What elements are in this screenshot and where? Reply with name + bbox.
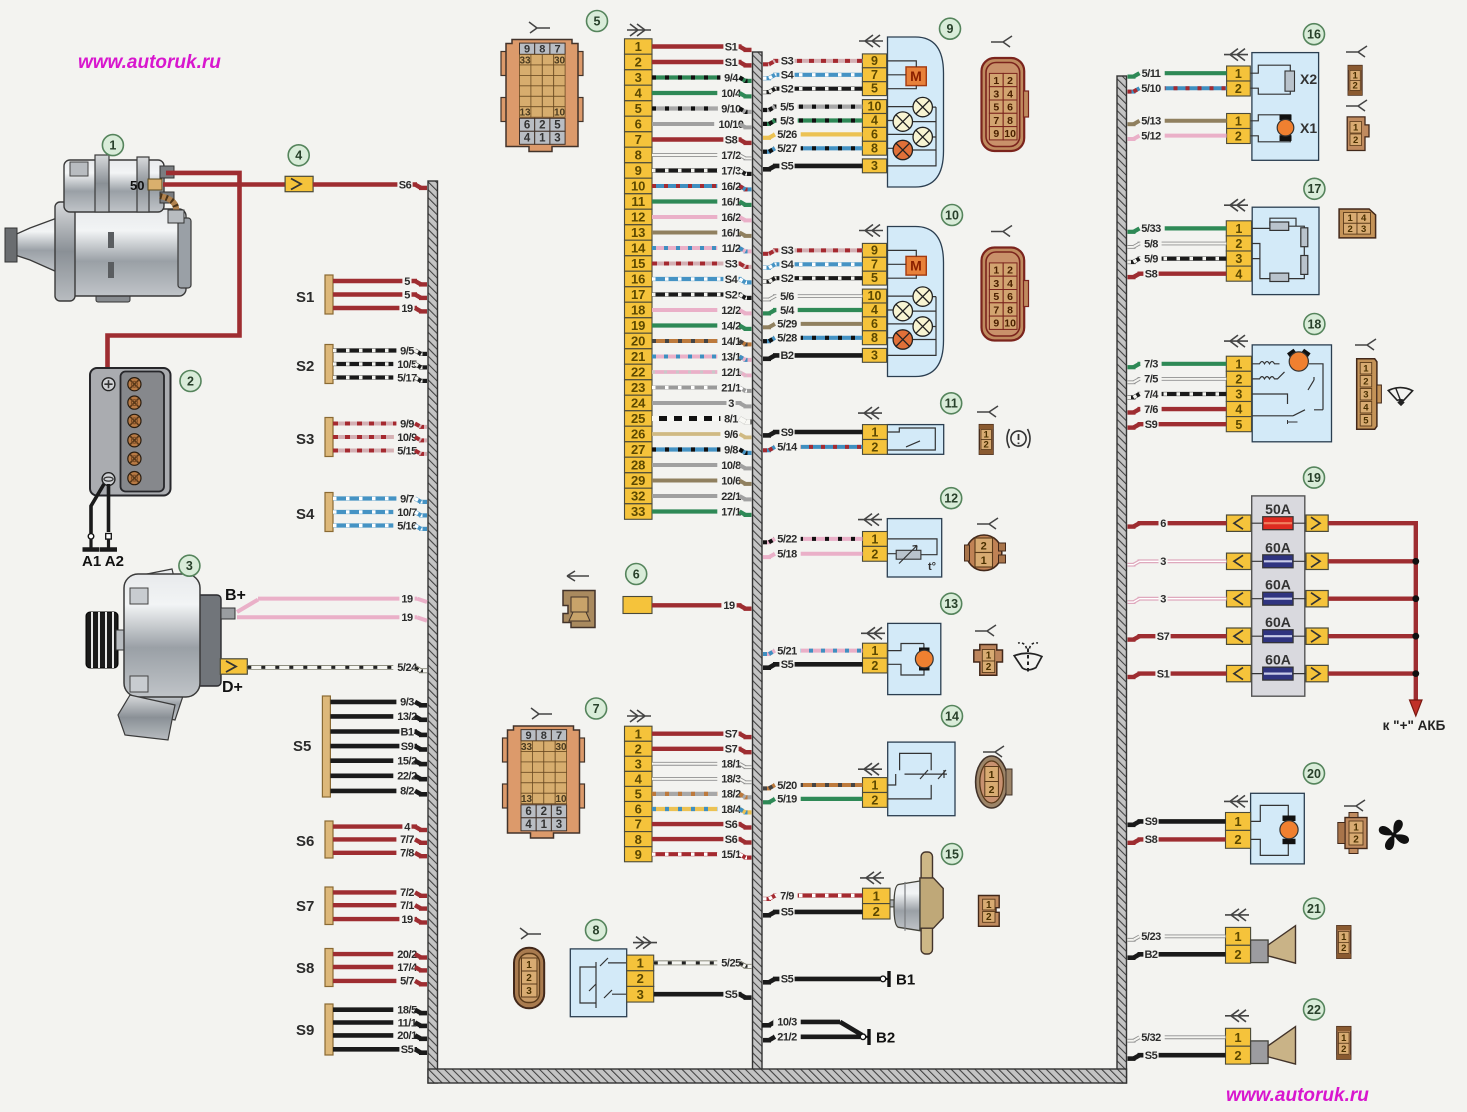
svg-text:2: 2 — [871, 659, 878, 673]
wire pin7 5 18/2 — [652, 787, 752, 801]
svg-text:1: 1 — [1235, 115, 1242, 129]
svg-text:11: 11 — [631, 194, 645, 209]
svg-text:1: 1 — [1234, 1030, 1241, 1045]
wire 17 5/33 — [1128, 221, 1227, 235]
svg-text:13/2: 13/2 — [397, 711, 417, 723]
fuse 3 60A — [1227, 577, 1329, 607]
wire B2 21/2 — [763, 1030, 860, 1044]
callout 11 — [941, 393, 962, 414]
callout 15 — [942, 844, 963, 865]
wire pin 26 9/6 — [652, 427, 752, 441]
svg-text:2: 2 — [989, 784, 995, 796]
wire 12 5/22 — [763, 532, 863, 546]
callout 10 — [942, 205, 963, 226]
wire headlamp 10 S2 — [763, 271, 862, 285]
svg-text:7/4: 7/4 — [1144, 389, 1159, 401]
svg-text:S3: S3 — [781, 56, 794, 68]
svg-text:1: 1 — [993, 265, 999, 277]
svg-text:5/3: 5/3 — [780, 115, 794, 127]
lighter 16 X2 circuit — [1250, 65, 1317, 94]
svg-text:3: 3 — [1361, 224, 1366, 235]
svg-text:1: 1 — [1353, 123, 1359, 134]
svg-text:13: 13 — [521, 794, 533, 805]
svg-text:1: 1 — [109, 139, 116, 153]
headlamp 9 internal wiring — [887, 61, 936, 166]
wire pin 23 21/1 — [652, 381, 752, 395]
svg-text:A1 A2: A1 A2 — [82, 553, 124, 570]
svg-text:20/1: 20/1 — [397, 1030, 417, 1042]
fuse box 19 (body) — [1252, 496, 1305, 696]
wire block2 to terminal A1 — [83, 484, 105, 550]
svg-text:5/32: 5/32 — [1141, 1032, 1161, 1044]
svg-text:50A: 50A — [1265, 501, 1291, 517]
svg-text:6: 6 — [635, 117, 642, 132]
mating connector 16 top — [1348, 66, 1362, 96]
svg-text:B1: B1 — [896, 972, 915, 989]
connector pins X18 — [1226, 356, 1251, 432]
symbol out above pins 8 — [633, 937, 657, 949]
symbol in above pins 11 — [858, 407, 882, 419]
symbol in above pins 10 — [859, 225, 883, 237]
svg-text:3: 3 — [993, 278, 999, 290]
svg-text:6: 6 — [871, 317, 878, 331]
wire S5 8/2 — [330, 784, 427, 798]
svg-text:18/1: 18/1 — [721, 759, 741, 771]
wire pin 22 12/1 — [652, 365, 752, 379]
wire 8 5/25 — [654, 956, 752, 970]
svg-text:3: 3 — [871, 159, 878, 173]
mating connector 12 (round) — [965, 535, 1006, 571]
wire pin 9 17/3 — [652, 164, 752, 178]
svg-text:5/17: 5/17 — [397, 372, 417, 384]
svg-text:15: 15 — [631, 256, 645, 271]
svg-text:6: 6 — [1007, 291, 1013, 303]
wire pin 6 10/10 — [652, 117, 752, 131]
symbol in above pins 22 — [1225, 1010, 1249, 1022]
svg-text:2: 2 — [526, 973, 532, 984]
headlamp 10 (body) — [888, 227, 944, 377]
wire 17 5/8 — [1128, 237, 1227, 251]
wire 14 5/20 — [763, 778, 863, 792]
svg-text:60A: 60A — [1265, 539, 1291, 555]
svg-text:www.autoruk.ru: www.autoruk.ru — [1226, 1085, 1369, 1106]
svg-text:S9: S9 — [781, 427, 794, 439]
svg-text:S5: S5 — [1145, 1050, 1158, 1062]
svg-text:9/9: 9/9 — [400, 418, 414, 430]
wire pin7 3 18/1 — [652, 757, 752, 771]
wire pin7 9 15/1 — [652, 847, 752, 861]
wire headlamp 9 5/5 — [763, 100, 862, 114]
svg-text:2: 2 — [635, 741, 642, 756]
wire S6 to harness — [313, 178, 427, 192]
svg-text:3: 3 — [1235, 388, 1242, 402]
svg-text:9/4: 9/4 — [724, 72, 739, 84]
svg-text:10: 10 — [554, 108, 566, 119]
wire S6 4 — [333, 820, 427, 834]
wire fuse3 feed 3 — [1128, 592, 1227, 606]
connector pins X16b — [1227, 114, 1251, 144]
wire S7 7/2 — [333, 885, 427, 899]
wire pin7 7 S6 — [652, 817, 752, 831]
wire pin7 8 S6 — [652, 832, 752, 846]
callout 3 — [179, 555, 200, 576]
svg-text:2: 2 — [187, 374, 194, 388]
svg-text:7: 7 — [635, 132, 642, 147]
wire S4 5/16 — [333, 519, 427, 533]
wire pin 7 S8 — [652, 133, 752, 147]
wire pin 24 3 — [652, 396, 752, 410]
wire headlamp 10 5/28 — [763, 331, 862, 345]
wire fuse5 feed S1 — [1128, 667, 1227, 681]
svg-text:17/3: 17/3 — [721, 165, 741, 177]
svg-text:7/2: 7/2 — [400, 887, 414, 899]
wire headlamp 9 S5 — [763, 159, 862, 173]
wire pin 3 9/4 — [652, 71, 752, 85]
connector pins X16a — [1227, 66, 1251, 96]
wire 16 5/12 — [1128, 129, 1227, 143]
wire 21 B2 — [1128, 947, 1226, 961]
splice S9 — [325, 1004, 333, 1055]
svg-text:7: 7 — [593, 702, 600, 716]
fuse3 output wire — [1328, 597, 1416, 601]
svg-text:60A: 60A — [1265, 614, 1291, 630]
svg-text:9: 9 — [524, 44, 530, 56]
horn 22 (body) — [1251, 1027, 1296, 1065]
svg-text:1: 1 — [1234, 929, 1241, 944]
lighter 16 X1 circuit — [1250, 115, 1317, 142]
wire 20 S8 — [1128, 832, 1226, 846]
mating connector 11 — [979, 425, 993, 455]
svg-text:S8: S8 — [1145, 834, 1158, 846]
svg-text:1: 1 — [989, 769, 995, 781]
mating connector 14 (oval) — [976, 756, 1012, 808]
svg-text:11/2: 11/2 — [722, 243, 741, 255]
mating connector 22 — [1337, 1027, 1351, 1060]
svg-text:16: 16 — [1307, 28, 1321, 42]
svg-text:5/10: 5/10 — [1141, 83, 1161, 95]
svg-text:9/10: 9/10 — [721, 103, 741, 115]
svg-text:S3: S3 — [725, 258, 738, 270]
symbol branch above connector 5 — [529, 22, 550, 33]
symbol in above pins 14 — [858, 763, 882, 775]
svg-text:4: 4 — [1235, 267, 1242, 281]
connector pins X12 — [863, 532, 888, 562]
fuse 5 60A — [1227, 652, 1329, 682]
svg-text:1: 1 — [871, 533, 878, 547]
wire 13 5/21 — [763, 644, 863, 658]
svg-text:5: 5 — [993, 102, 999, 114]
wire S3 5/15 — [333, 444, 427, 458]
wire pin 33 17/1 — [652, 505, 752, 519]
svg-text:19: 19 — [1307, 471, 1321, 485]
svg-text:S5: S5 — [401, 1044, 414, 1056]
symbol fork above connector 10 — [991, 226, 1012, 237]
wire headlamp 10 5/29 — [763, 317, 862, 331]
svg-text:9/3: 9/3 — [400, 697, 414, 709]
switch 11 (box) — [887, 425, 943, 455]
svg-text:5: 5 — [1235, 418, 1242, 432]
svg-text:S5: S5 — [781, 907, 794, 919]
svg-text:5: 5 — [871, 82, 878, 96]
svg-text:10: 10 — [631, 179, 645, 194]
svg-text:18/3: 18/3 — [721, 774, 741, 786]
svg-text:6: 6 — [524, 120, 530, 132]
wire pin7 6 18/4 — [652, 802, 752, 816]
symbol fork above connector 16 top — [1346, 46, 1367, 57]
connector pins X15 — [863, 888, 891, 919]
svg-text:X2: X2 — [1300, 71, 1317, 87]
wire S5 13/2 — [330, 709, 427, 723]
wire S8 20/2 — [333, 947, 427, 961]
wire headlamp 9 5/26 — [763, 127, 862, 141]
svg-text:6: 6 — [1160, 518, 1166, 530]
terminal B1 — [880, 971, 915, 989]
symbol out above pins 5 — [627, 24, 651, 36]
connector pins X14 — [863, 778, 888, 808]
svg-text:5/6: 5/6 — [780, 291, 794, 303]
wire S2 10/5 — [333, 357, 427, 371]
svg-text:1: 1 — [1348, 213, 1354, 224]
splice S5 — [322, 696, 330, 797]
symbol in above pins 21 — [1225, 909, 1249, 921]
wire 14 5/19 — [763, 792, 863, 806]
svg-text:21/1: 21/1 — [721, 382, 741, 394]
svg-text:14: 14 — [945, 709, 959, 723]
fan motor 20 (box) — [1251, 793, 1305, 864]
svg-text:1: 1 — [1341, 932, 1347, 943]
symbol fork above connector 14 — [983, 746, 1004, 757]
svg-text:26: 26 — [631, 427, 645, 442]
svg-text:21/2: 21/2 — [777, 1032, 797, 1044]
svg-text:1: 1 — [635, 39, 642, 54]
svg-text:12: 12 — [631, 210, 645, 225]
switch 14 (box) — [888, 742, 955, 816]
symbol in above pins 12 — [858, 514, 882, 526]
immobiliser unit 8 (box) — [570, 949, 626, 1017]
wire S3 10/9 — [333, 430, 427, 444]
warning lamp icon 11 — [1007, 429, 1030, 448]
svg-text:2: 2 — [1235, 237, 1242, 251]
svg-text:4: 4 — [871, 114, 878, 128]
connector pins X5 — [625, 39, 653, 520]
splice S7 — [325, 887, 333, 925]
svg-text:S6: S6 — [725, 834, 738, 846]
svg-text:2: 2 — [981, 541, 987, 553]
svg-text:19: 19 — [401, 303, 413, 315]
connector pins X17 — [1226, 221, 1251, 281]
svg-text:S9: S9 — [1145, 419, 1158, 431]
svg-text:16/2: 16/2 — [721, 212, 741, 224]
wire S2 9/5 — [333, 344, 427, 358]
svg-text:2: 2 — [1235, 130, 1242, 144]
symbol in above pins 16 — [1224, 49, 1248, 61]
wire S5 S9 — [330, 739, 427, 753]
symbol in above pins 13 — [861, 627, 885, 639]
harness connector 5 (body) — [501, 40, 583, 152]
mating connector 6 — [563, 591, 595, 628]
temp sensor 12 (box) — [887, 519, 941, 577]
svg-text:1: 1 — [539, 133, 546, 145]
wire S2 5/17 — [333, 371, 427, 385]
wire headlamp 9 5/27 — [763, 141, 862, 155]
fuse1 output wire — [1328, 521, 1416, 525]
svg-text:5: 5 — [1363, 416, 1369, 427]
wiper motor 18 armature — [1287, 349, 1311, 371]
washer jet icon 13 — [1014, 643, 1042, 674]
symbol in above pins 20 — [1224, 795, 1248, 807]
svg-text:S2: S2 — [781, 84, 794, 96]
block 2 screws — [102, 378, 141, 486]
svg-text:S1: S1 — [725, 57, 738, 69]
wire S9 20/1 — [333, 1028, 427, 1042]
wire headlamp 9 5/3 — [763, 114, 862, 128]
svg-text:2: 2 — [1363, 377, 1368, 388]
svg-text:7: 7 — [554, 44, 560, 56]
wire pin 27 9/8 — [652, 443, 752, 457]
svg-text:6: 6 — [635, 802, 642, 817]
wire S9 11/1 — [333, 1016, 427, 1030]
callout 6 — [626, 564, 647, 585]
svg-text:25: 25 — [631, 411, 645, 426]
svg-text:S4: S4 — [781, 70, 795, 82]
svg-text:7/1: 7/1 — [400, 900, 414, 912]
svg-text:5/29: 5/29 — [777, 319, 797, 331]
svg-text:10/9: 10/9 — [397, 432, 417, 444]
svg-text:S2: S2 — [781, 273, 794, 285]
svg-text:18: 18 — [1307, 317, 1321, 331]
svg-text:11: 11 — [945, 397, 958, 411]
wire pin 10 16/2 — [652, 179, 752, 193]
svg-text:13/1: 13/1 — [721, 351, 741, 363]
svg-text:10: 10 — [1004, 128, 1016, 140]
fan motor 20 circuit — [1250, 805, 1298, 855]
svg-text:B2: B2 — [780, 350, 793, 362]
svg-text:S2: S2 — [725, 289, 738, 301]
svg-text:18/2: 18/2 — [721, 789, 741, 801]
svg-text:14/1: 14/1 — [721, 336, 741, 348]
wire S3 9/9 — [333, 417, 427, 431]
svg-text:S4: S4 — [296, 506, 315, 523]
svg-text:2: 2 — [1352, 80, 1357, 91]
svg-text:1: 1 — [1341, 1033, 1347, 1044]
mating connector 18 (5-pin) — [1357, 359, 1382, 429]
svg-text:2: 2 — [541, 806, 547, 818]
wire 13 S5 — [763, 657, 863, 671]
svg-text:t°: t° — [928, 561, 936, 573]
svg-text:5/22: 5/22 — [777, 534, 797, 546]
svg-text:4: 4 — [295, 149, 302, 163]
fuse5 output wire — [1328, 671, 1416, 675]
connector pins X20 — [1226, 813, 1251, 849]
harness bar C (right vertical) — [1117, 76, 1127, 1083]
washer pump 13 (box) — [888, 623, 941, 694]
svg-text:28: 28 — [631, 458, 645, 473]
wire pin 29 10/6 — [652, 474, 752, 488]
battery bus vertical wire — [1414, 521, 1418, 700]
wire pin 5 9/10 — [652, 102, 752, 116]
svg-text:32: 32 — [631, 489, 645, 504]
svg-text:5/27: 5/27 — [777, 143, 797, 155]
svg-text:3: 3 — [728, 398, 734, 410]
wire 18 7/4 — [1128, 387, 1227, 401]
wire 16 5/10 — [1128, 81, 1227, 95]
svg-text:14: 14 — [631, 241, 646, 256]
splice S3 — [325, 418, 333, 457]
svg-text:4: 4 — [1363, 403, 1369, 414]
wire S5 9/3 — [330, 695, 427, 709]
svg-text:20/2: 20/2 — [397, 949, 417, 961]
svg-text:2: 2 — [1235, 82, 1242, 96]
svg-text:9: 9 — [947, 22, 954, 36]
alternator (component 3) — [86, 569, 235, 740]
wire S7 19 — [333, 912, 427, 926]
svg-text:7/7: 7/7 — [400, 834, 414, 846]
svg-text:7: 7 — [871, 257, 878, 271]
starter motor (component 1) — [5, 155, 191, 302]
svg-text:S2: S2 — [296, 358, 314, 375]
fuse 4 60A — [1227, 614, 1329, 644]
symbol fork above connector 9 — [991, 36, 1012, 47]
svg-text:5/33: 5/33 — [1141, 223, 1161, 235]
wire 22 S5 — [1128, 1048, 1226, 1062]
svg-text:10: 10 — [945, 208, 959, 222]
callout 17 — [1304, 178, 1325, 199]
svg-text:5: 5 — [554, 120, 561, 132]
svg-text:22/1: 22/1 — [721, 491, 741, 503]
svg-text:6: 6 — [871, 127, 878, 141]
svg-text:8: 8 — [541, 730, 547, 742]
svg-text:S3: S3 — [781, 245, 794, 257]
headlamp 9 lamps — [893, 97, 932, 159]
svg-text:12/2: 12/2 — [721, 305, 741, 317]
svg-text:18/4: 18/4 — [721, 804, 742, 816]
svg-text:10/6: 10/6 — [721, 475, 741, 487]
svg-text:к "+" АКБ: к "+" АКБ — [1383, 718, 1446, 733]
wire 18 7/6 — [1128, 402, 1227, 416]
svg-text:10/3: 10/3 — [777, 1017, 797, 1029]
svg-text:5: 5 — [635, 787, 642, 802]
svg-text:5/25: 5/25 — [721, 958, 741, 970]
symbol branch above connector 7 — [531, 708, 552, 719]
wire 16 5/13 — [1128, 114, 1227, 128]
svg-text:3: 3 — [635, 70, 642, 85]
wire pin 25 8/1 — [652, 412, 752, 426]
svg-text:S9: S9 — [296, 1022, 314, 1039]
symbol fork above connector 20 — [1344, 800, 1365, 811]
svg-text:18: 18 — [631, 303, 645, 318]
harness bar A (left vertical) — [428, 181, 438, 1083]
headlamp 9 (body) — [888, 37, 944, 187]
svg-text:9/5: 9/5 — [400, 345, 414, 357]
wiper motor 18 (box) — [1252, 345, 1331, 442]
svg-text:10/8: 10/8 — [721, 460, 741, 472]
svg-text:5: 5 — [404, 276, 410, 288]
wire headlamp 10 5/6 — [763, 289, 862, 303]
svg-text:5: 5 — [594, 14, 601, 28]
svg-text:3: 3 — [1160, 556, 1166, 568]
mating connector 15 — [979, 896, 1000, 927]
svg-text:16: 16 — [631, 272, 645, 287]
svg-text:19: 19 — [401, 612, 413, 624]
connector pins X21 — [1226, 927, 1251, 963]
svg-text:9/6: 9/6 — [724, 429, 738, 441]
callout 20 — [1304, 763, 1325, 784]
connector 18 cells — [1360, 363, 1372, 427]
wire headlamp 9 S4 — [763, 68, 862, 82]
mating connector for headlamp 9 (10-pin) — [982, 58, 1029, 151]
symbol fork above connector 13 — [975, 625, 996, 636]
mating connector 16 bottom — [1347, 117, 1369, 151]
